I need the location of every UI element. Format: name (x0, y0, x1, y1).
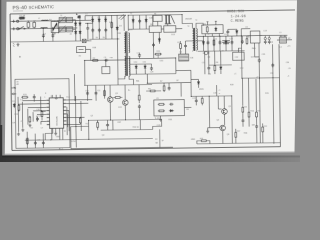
wire K1 taps (54, 21, 56, 35)
thermistor RT1 box (82, 39, 86, 43)
test point mark (19, 56, 21, 58)
capacitor C14 filter (231, 40, 234, 44)
frame top border (10, 10, 295, 14)
wire aux sub rail (130, 63, 152, 65)
diode D16 secondary (132, 18, 134, 23)
svg-text:T1: T1 (130, 13, 132, 15)
resistor R25 aux (155, 53, 162, 55)
junction dot 9 (219, 36, 220, 37)
wire output filter column 1 (202, 36, 204, 51)
svg-text:Q3: Q3 (90, 115, 93, 117)
transformer T1 secondary winding upper (128, 33, 129, 53)
junction dot 1 (43, 28, 44, 29)
wire aux vertical b (175, 58, 177, 74)
capacitor C39 stub (138, 109, 140, 120)
wire U3 top pins (206, 21, 216, 25)
svg-text:N1: N1 (154, 13, 156, 15)
junction dot 18 (125, 119, 126, 120)
resistor R17 (235, 131, 237, 138)
wire return vert inner (272, 44, 273, 143)
capacitor C34 (271, 63, 274, 67)
wire bridge link (85, 22, 92, 24)
transformer T1 primary winding lower (125, 56, 126, 76)
svg-text:R38: R38 (93, 47, 96, 49)
wire R11 chain (255, 79, 258, 143)
wire lower drop 4 (220, 51, 222, 74)
wire snubber column 2 (98, 16, 100, 40)
capacitor C30 filter top (226, 30, 229, 34)
svg-text:F1 2A: F1 2A (20, 14, 26, 17)
svg-text:10: 10 (106, 125, 108, 127)
resistor R2 feedback (92, 59, 99, 61)
ground under box U5 (159, 118, 162, 121)
junction dot 20 (84, 60, 85, 61)
wire drive rail (191, 95, 231, 98)
capacitor C24 timing (36, 117, 39, 121)
wire pin row 4 (33, 110, 47, 112)
capacitor C1 X-cap (27, 22, 30, 27)
svg-text:U1: U1 (51, 96, 53, 98)
capacitor C6 snubber (91, 28, 94, 32)
rectifier module box N2 (149, 26, 161, 33)
junction dot 15 (209, 96, 210, 97)
svg-text:VCC: VCC (66, 97, 71, 99)
wire aux seg2 (209, 64, 232, 66)
resistor R11 (256, 111, 258, 118)
svg-text:A1: A1 (17, 83, 19, 86)
wire left return vertical (74, 74, 76, 101)
svg-text:R31: R31 (200, 138, 203, 140)
svg-text:D2: D2 (98, 17, 100, 19)
wire mesh vert 3 (88, 120, 90, 139)
svg-text:1N4148: 1N4148 (185, 18, 192, 20)
feedback box X2 (102, 67, 110, 74)
wire Q5 base (218, 108, 221, 110)
junction dot 13 (272, 77, 273, 78)
ground at Q6 (206, 130, 209, 133)
svg-text:C3: C3 (43, 33, 45, 35)
wire T2 top lead (182, 14, 192, 28)
wire Q4 emitter (124, 105, 126, 119)
diode D18 opto led (197, 80, 199, 85)
capacitor C19 output electrolytic (268, 40, 271, 44)
bridge diode D22 (74, 30, 76, 35)
wire Q6 collector emitter (222, 125, 224, 143)
capacitor C9 feedback (104, 59, 108, 62)
junction dot 24 (129, 58, 130, 59)
svg-text:U4: U4 (245, 27, 247, 29)
svg-text:cap: cap (110, 57, 113, 59)
drive transformer T2 core (194, 28, 195, 51)
svg-text:U5: U5 (156, 98, 158, 100)
svg-text:C41: C41 (36, 109, 39, 111)
resistor R27 (246, 38, 248, 45)
capacitor C18 output electrolytic (264, 40, 267, 44)
frame left border (10, 14, 12, 150)
svg-text:F2: F2 (155, 139, 157, 141)
resistor R23 clear (80, 118, 82, 123)
resistor R4 (213, 39, 215, 46)
wire snubber column 3 (105, 15, 107, 39)
svg-text:SYNC: SYNC (71, 141, 77, 143)
junction dot 4 (87, 23, 88, 24)
transistor Q5 (222, 109, 228, 115)
capacitor C27 (42, 141, 45, 145)
electrolytic value label block (222, 41, 230, 44)
wire mesh vert 1 (75, 96, 78, 147)
wire cap drop b (34, 134, 36, 148)
capacitor C25 (33, 95, 36, 99)
svg-text:R21: R21 (26, 138, 29, 140)
wire Q3 feed (109, 85, 111, 96)
junction dot 5 (117, 38, 118, 39)
resistor R23 (79, 117, 81, 124)
wire T2 bottom leads (193, 50, 197, 53)
svg-text:GND: GND (191, 139, 196, 141)
svg-text:5.1: 5.1 (20, 99, 23, 101)
resistor R32 mid (138, 94, 140, 101)
resistor R8 (149, 90, 156, 92)
title underline squiggle (13, 10, 23, 12)
earth ground symbol (13, 43, 14, 47)
capacitor C11 (95, 91, 98, 95)
svg-text:SG3524N: SG3524N (57, 116, 59, 126)
svg-text:R36: R36 (244, 133, 247, 135)
svg-text:C26: C26 (37, 140, 40, 142)
wire U5 lead (184, 106, 191, 108)
resistor R10 feed (247, 78, 249, 111)
input sense diode on left frame (12, 87, 17, 95)
relay module K1 (51, 21, 58, 32)
wire C23 stubs (195, 96, 197, 105)
junction dot 8 (203, 36, 204, 37)
svg-text:R1: R1 (109, 22, 111, 24)
wire R8 link (146, 90, 161, 92)
junction dot 14 (231, 95, 232, 96)
wire lower drop 3 (214, 51, 216, 74)
wire Y-cap drop 1 (42, 28, 44, 41)
wire R5 C15 drops (180, 41, 185, 54)
PWM controller IC U1 (49, 98, 63, 129)
wire N4 lead (238, 48, 241, 52)
svg-text:R39: R39 (230, 84, 233, 86)
capacitor C23 (195, 99, 198, 103)
diode D19 (158, 37, 160, 42)
svg-text:FB1: FB1 (136, 81, 139, 83)
drive transformer T2 primary (192, 29, 194, 51)
resistor R1 snubber (111, 21, 113, 28)
feedback box X2 lead (105, 60, 107, 66)
capacitor C29 stub (138, 57, 140, 60)
wire snubber column 1 (92, 16, 94, 40)
capacitor C4 Y-cap (51, 33, 54, 37)
capacitor C17 (168, 86, 171, 90)
power diode D13 TO-220 (165, 15, 175, 24)
resistor R21 (26, 138, 28, 145)
enclosure corner tick (16, 81, 18, 83)
wire return vert long (259, 43, 260, 143)
svg-text:U6: U6 (208, 57, 210, 59)
junction dot 6 (128, 15, 129, 16)
wire mid horizontal link (147, 82, 191, 85)
diode D15 inside U3 (215, 27, 217, 32)
diode D12 catch (236, 29, 238, 34)
wire T2 secondary top lead (196, 23, 203, 28)
capacitor C37 stubs (107, 120, 109, 130)
wire aux seg (185, 40, 203, 42)
bridge diode D21 (79, 21, 81, 26)
wire IC right row 3 (66, 116, 84, 118)
wire N2 drop (152, 32, 154, 58)
inductor L2 neutral choke (41, 26, 48, 29)
wire AC line rail (11, 20, 91, 21)
capacitor C18 shell (264, 37, 266, 39)
resistor R20 (21, 96, 28, 98)
driver IC box U3 (202, 25, 223, 34)
wire R7 C17 stubs (164, 83, 169, 86)
capacitor C5b reservoir (86, 26, 89, 30)
wire cap drops (265, 36, 269, 38)
capacitor C30 stubs (227, 29, 229, 36)
capacitor C22 (169, 103, 173, 106)
wire output filter column 6 (231, 36, 233, 51)
junction dot 3 (79, 15, 80, 16)
svg-text:L3: L3 (280, 47, 282, 49)
wire IC right row 1 (66, 99, 92, 101)
svg-text:D10: D10 (160, 60, 163, 62)
wire bus vert 2 (21, 102, 23, 128)
resistor R27 stub (246, 36, 248, 38)
wire bus vert 5 (36, 116, 38, 122)
svg-text:C32: C32 (235, 57, 238, 59)
wire output filter column 2 (207, 36, 209, 51)
svg-text:Q5: Q5 (228, 106, 231, 108)
left scanner edge (0, 0, 1, 162)
resistor R5 (180, 42, 182, 49)
error amp box U5 (154, 100, 185, 116)
svg-text:AC-1: AC-1 (59, 147, 63, 150)
wire T1 secondary top lead (127, 15, 129, 30)
diode D2 snubber (98, 18, 100, 23)
choke arrow mark lower (58, 26, 66, 34)
junction dot 17 (110, 119, 111, 120)
svg-text:C18: C18 (263, 30, 266, 32)
wire box N1 drop (157, 21, 159, 25)
junction dot 21 (105, 60, 106, 61)
capacitor C10 (86, 91, 89, 95)
wire IC right row 4 (66, 123, 80, 125)
paper bottom edge shade (5, 152, 295, 154)
wire sec drop 3 (145, 15, 147, 29)
resistor R32 stubs (138, 85, 140, 103)
resistor R25 stub (157, 54, 159, 58)
svg-text:R25: R25 (157, 51, 160, 53)
wire transformer bottom return (117, 79, 119, 85)
svg-text:D3: D3 (104, 17, 106, 19)
resistor R30 stub (41, 110, 42, 120)
svg-text:C35: C35 (262, 54, 265, 56)
paper sheet (5, 0, 297, 154)
wire mid vertical (180, 83, 182, 97)
svg-text:R19: R19 (14, 114, 17, 116)
revision text block (227, 10, 246, 24)
svg-text:103: 103 (251, 57, 254, 59)
svg-text:N2: N2 (150, 24, 152, 26)
svg-text:C14: C14 (229, 38, 232, 40)
resistor R28 inside U3 (206, 26, 208, 33)
capacitor C39 mid (138, 104, 141, 108)
svg-text:C31: C31 (213, 93, 216, 95)
svg-text:C1: C1 (27, 21, 29, 23)
capacitor C15 (184, 44, 187, 48)
junction dot 7 (182, 14, 183, 15)
snubber network box N1 (153, 15, 162, 21)
junction dot 23 (191, 96, 192, 97)
wire output lower rail (198, 50, 245, 53)
svg-text:CM: CM (286, 62, 289, 64)
svg-text:X2: X2 (79, 55, 81, 57)
resistor R12 (262, 126, 264, 133)
IC ground (54, 132, 57, 135)
wire R12 stubs (262, 123, 264, 142)
wire snubber column 4 (111, 15, 113, 39)
svg-text:R8: R8 (148, 88, 150, 90)
wire bias vert (241, 78, 243, 105)
wire IC right routing a (66, 107, 68, 135)
bridge diode D20 (74, 21, 76, 26)
resistor R3 (104, 90, 106, 97)
wire bottom return rail (197, 143, 280, 144)
svg-text:4.7: 4.7 (21, 121, 24, 123)
wire primary return vertical (116, 39, 119, 79)
junction dot 27 (88, 139, 89, 140)
wire sec stub (152, 15, 154, 26)
wire IC right routing c (66, 114, 67, 127)
svg-text:10: 10 (207, 34, 209, 36)
wire left rail seg (71, 125, 89, 127)
wire IC right routing b (66, 110, 69, 131)
resistor R15 (158, 110, 165, 112)
wire output stub top (241, 28, 250, 30)
diode D11 stub (144, 64, 146, 74)
wire drive vert 2 (217, 96, 219, 109)
wire tp riser (159, 129, 161, 147)
capacitor C29 aux (138, 53, 141, 57)
svg-text:R5: R5 (177, 42, 179, 44)
wire bridge vertical (79, 16, 81, 41)
svg-text:T2: T2 (195, 20, 197, 22)
resistor R9 (242, 106, 244, 113)
wire aux drop 1 (86, 85, 88, 100)
IC U1 top stubs (52, 95, 60, 98)
diode D8 (169, 109, 174, 111)
svg-text:C12: C12 (213, 39, 216, 41)
junction dot 12 (259, 77, 260, 78)
capacitor C8 snubber (104, 28, 107, 32)
svg-text:R6: R6 (216, 62, 218, 64)
svg-text:Q3: Q3 (115, 93, 118, 95)
svg-text:C2: C2 (33, 20, 35, 22)
svg-text:1-24-96: 1-24-96 (231, 15, 246, 19)
svg-text:R10: R10 (250, 111, 253, 113)
capacitor C35 (258, 58, 261, 62)
transformer T1 primary winding upper (124, 33, 125, 53)
resistor R16 (201, 97, 203, 104)
capacitor C33 stub (241, 36, 243, 40)
capacitor C5 bulk electrolytic (76, 13, 81, 18)
frame right border (279, 44, 280, 146)
wire output main rail (197, 35, 287, 36)
wire sec drop 2 (139, 15, 141, 29)
junction dot 10 (241, 35, 242, 36)
transformer T1 phasing marks (119, 14, 126, 20)
wire IC bottom curve (45, 128, 53, 140)
wire C1 drops (27, 21, 29, 28)
junction dot 22 (147, 83, 148, 84)
wire aux drop 3 (103, 85, 105, 98)
svg-text:L3: L3 (279, 32, 281, 34)
capacitor C28 aux (150, 66, 153, 70)
wire Q6 base (208, 127, 220, 129)
wire Q4 feed (124, 85, 126, 100)
svg-text:C11: C11 (97, 90, 100, 92)
control section enclosure (15, 79, 70, 149)
wire sense riser (216, 85, 218, 96)
resistor R6 (214, 64, 216, 71)
svg-text:7805: 7805 (252, 48, 256, 50)
wire neutral drop to bridge (75, 20, 77, 41)
svg-text:C16: C16 (202, 62, 205, 64)
common-mode choke T3 winding B upper (66, 17, 72, 22)
svg-text:D14: D14 (240, 68, 243, 70)
resistor R14 (158, 103, 165, 105)
svg-text:D9: D9 (12, 101, 14, 103)
optocoupler U6 shell (203, 51, 210, 54)
svg-text:16: 16 (64, 131, 66, 133)
diode D9 (13, 103, 15, 108)
svg-text:D1: D1 (91, 17, 93, 19)
wire enclosure2 left edge (70, 127, 72, 149)
wire return rail (242, 77, 279, 80)
diode D4 clamp (116, 26, 118, 31)
svg-text:C34: C34 (270, 73, 273, 75)
connector J1 line terminal (12, 20, 19, 23)
junction dot 26 (50, 139, 51, 140)
svg-text:115V: 115V (128, 29, 133, 31)
diode D6 rectifier (225, 40, 227, 45)
resistor R7 (163, 85, 165, 92)
wire aux rail (84, 83, 152, 86)
junction dot 28 (27, 140, 28, 141)
transistor Q3 switch (107, 97, 113, 103)
wire Q3 emitter (109, 102, 111, 120)
svg-text:C24: C24 (38, 115, 41, 117)
wire AC neutral rail (11, 27, 77, 30)
svg-text:-s: -s (218, 93, 220, 95)
svg-text:R2: R2 (93, 58, 95, 60)
wire aux vertical a (129, 59, 131, 75)
svg-text:L1: L1 (38, 18, 40, 20)
junction dot 11 (241, 78, 242, 79)
resistor R29 emitter (97, 121, 99, 128)
connector J1 neutral terminal (12, 27, 19, 30)
svg-text:1: 1 (44, 97, 45, 99)
diode D3 snubber (104, 17, 106, 22)
wire feedback vertical (84, 61, 86, 86)
svg-text:C.MENG: C.MENG (231, 20, 244, 24)
svg-text:R18: R18 (27, 117, 30, 119)
svg-text:R9: R9 (244, 107, 246, 109)
